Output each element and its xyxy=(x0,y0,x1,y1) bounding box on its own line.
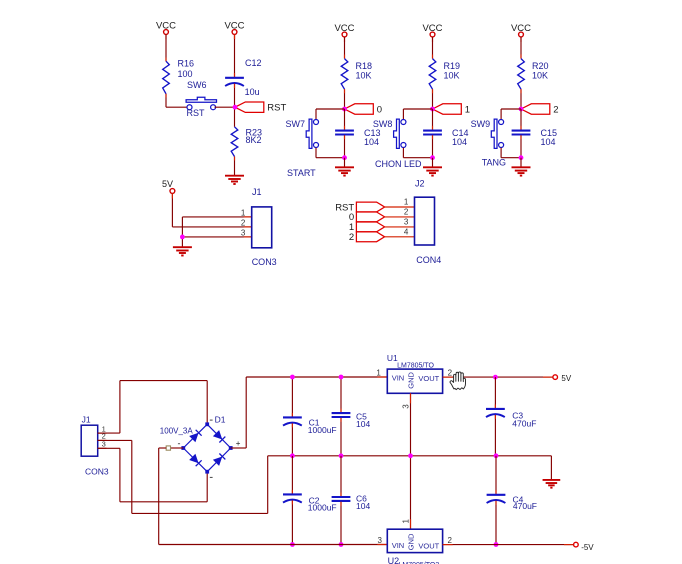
svg-text:10K: 10K xyxy=(532,71,548,81)
svg-text:10K: 10K xyxy=(356,71,372,81)
svg-text:START: START xyxy=(287,168,316,178)
svg-text:2: 2 xyxy=(448,536,453,545)
svg-text:470uF: 470uF xyxy=(512,419,536,429)
svg-text:D1: D1 xyxy=(215,414,226,424)
svg-text:CON4: CON4 xyxy=(416,255,441,265)
svg-text:GND: GND xyxy=(407,533,416,550)
svg-text:U2: U2 xyxy=(388,556,400,564)
svg-text:CON3: CON3 xyxy=(85,467,109,477)
svg-text:SW8: SW8 xyxy=(373,119,393,129)
svg-text:1: 1 xyxy=(404,198,409,207)
svg-text:SW7: SW7 xyxy=(285,119,305,129)
svg-text:CHON LED: CHON LED xyxy=(375,159,422,169)
svg-text:RST: RST xyxy=(267,103,286,114)
svg-text:100V_3A: 100V_3A xyxy=(160,426,194,435)
svg-text:104: 104 xyxy=(356,419,370,429)
svg-text:J2: J2 xyxy=(415,179,425,189)
svg-text:SW9: SW9 xyxy=(471,119,491,129)
svg-text:100: 100 xyxy=(178,69,193,79)
svg-text:R18: R18 xyxy=(356,61,373,71)
svg-text:104: 104 xyxy=(541,137,556,147)
svg-text:5V: 5V xyxy=(561,374,571,383)
svg-text:LM7805/TO: LM7805/TO xyxy=(397,362,434,369)
svg-text:10K: 10K xyxy=(444,71,460,81)
svg-text:3: 3 xyxy=(404,218,409,227)
svg-text:R19: R19 xyxy=(444,61,461,71)
svg-text:3: 3 xyxy=(241,229,246,238)
svg-text:TANG: TANG xyxy=(482,158,506,168)
svg-text:1000uF: 1000uF xyxy=(308,425,337,435)
svg-text:1: 1 xyxy=(241,209,246,218)
svg-text:VOUT: VOUT xyxy=(418,374,439,383)
svg-text:0: 0 xyxy=(377,105,382,116)
svg-text:2: 2 xyxy=(553,105,558,116)
svg-text:104: 104 xyxy=(356,501,370,511)
svg-text:10u: 10u xyxy=(245,87,260,97)
svg-text:104: 104 xyxy=(364,137,379,147)
svg-text:1: 1 xyxy=(402,519,411,524)
svg-text:-: - xyxy=(178,438,181,448)
svg-text:+: + xyxy=(236,439,241,448)
svg-text:VOUT: VOUT xyxy=(418,541,439,550)
svg-text:2: 2 xyxy=(404,208,409,217)
svg-text:1: 1 xyxy=(465,105,470,116)
svg-text:8K2: 8K2 xyxy=(246,135,262,145)
svg-text:J1: J1 xyxy=(252,187,262,197)
svg-text:5V: 5V xyxy=(162,179,173,189)
svg-text:1: 1 xyxy=(376,369,381,378)
svg-text:2: 2 xyxy=(349,232,354,243)
svg-text:SW6: SW6 xyxy=(187,80,207,90)
svg-text:R20: R20 xyxy=(532,61,549,71)
svg-text:104: 104 xyxy=(452,137,467,147)
svg-text:R16: R16 xyxy=(178,58,195,68)
svg-text:C12: C12 xyxy=(245,58,262,68)
svg-text:3: 3 xyxy=(377,536,382,545)
svg-text:VIN: VIN xyxy=(392,374,405,383)
svg-text:2: 2 xyxy=(448,369,453,378)
svg-text:470uF: 470uF xyxy=(513,501,537,511)
svg-text:2: 2 xyxy=(241,219,246,228)
svg-text:VIN: VIN xyxy=(392,541,405,550)
svg-text:1000uF: 1000uF xyxy=(308,503,337,513)
svg-text:3: 3 xyxy=(401,404,410,409)
svg-text:RST: RST xyxy=(187,108,206,118)
svg-text:CON3: CON3 xyxy=(252,257,277,267)
svg-text:-5V: -5V xyxy=(581,543,594,552)
svg-text:4: 4 xyxy=(404,227,409,236)
svg-text:J1: J1 xyxy=(82,414,91,424)
svg-text:GND: GND xyxy=(407,371,416,388)
